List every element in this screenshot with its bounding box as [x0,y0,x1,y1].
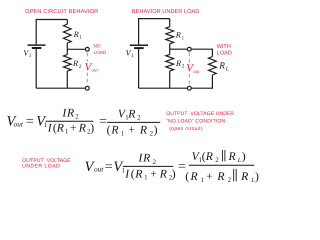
wire: branch below R2 [66,71,68,88]
formula fraction 4 numerator V1(R2 || RL) [192,150,246,164]
label R2 (right) [175,59,185,70]
svg-text:+: + [70,122,77,135]
svg-text:R: R [66,106,74,119]
svg-text:R: R [190,170,198,183]
terminal: bottom node (open circle, right) [187,86,191,90]
svg-text:2: 2 [228,177,232,184]
svg-text:1: 1 [65,129,68,136]
svg-text:LOAD: LOAD [217,50,232,56]
annotation: NO LOAD [94,44,107,55]
resistor R1 (right) [166,27,174,44]
label Vout (left) [85,61,99,73]
annotation: WITH LOAD [217,44,232,57]
svg-text:1: 1 [182,35,185,41]
svg-text:R: R [175,59,181,68]
title: BEHAVIOR UNDER LOAD [132,9,199,15]
svg-text:(open circuit): (open circuit) [169,126,203,132]
svg-text:): ) [172,168,176,181]
svg-text:+: + [128,124,135,137]
wire: node to terminal [67,48,85,50]
formula fraction 2 denominator (R1+R2) [107,124,158,138]
svg-text:R: R [134,168,142,181]
svg-text:UNDER LOAD: UNDER LOAD [22,163,60,169]
svg-text:2: 2 [182,64,185,70]
annotation: OUTPUT VOLTAGE UNDER 'NO LOAD' CONDITION (open circuit) [166,111,234,132]
svg-text:WITH: WITH [217,44,231,50]
wire: branch between R1 and R2 [66,43,68,55]
formula fraction 1 bar [46,120,94,122]
svg-text:L: L [225,67,229,73]
wire: load branch lower stub [211,75,213,89]
svg-text:R: R [228,150,236,163]
svg-text:out: out [92,69,99,74]
formula term: V1 [36,114,47,130]
svg-text:): ) [90,122,94,135]
wire: branch between R1 and R2 (right) [169,44,171,55]
svg-text:R: R [73,30,79,39]
formula term: Vout (2) [85,159,105,175]
wire: left top [36,19,67,21]
wire: left side lower [35,49,37,88]
svg-text:R: R [139,124,147,137]
svg-text:+: + [150,168,157,181]
wire: right top [139,18,170,20]
svg-text:R: R [159,168,167,181]
wire: left side upper [35,19,37,44]
wire: right bottom left of terminal [139,87,188,89]
svg-text:R: R [142,152,150,165]
battery V1 (left) [28,45,46,48]
label R1 (left) [73,30,83,41]
svg-text:1: 1 [44,122,47,129]
svg-text:2: 2 [137,114,141,121]
parallel symbol (numerator 4) [222,150,225,161]
formula fraction 1 denominator I(R1+R2) [47,122,95,136]
svg-text:2: 2 [75,114,79,121]
svg-text:out: out [94,165,104,174]
formula fraction 4 denominator (R1+R2 || RL) [185,170,259,184]
svg-text:R: R [78,122,86,135]
formula term: Vout [7,114,24,130]
svg-text:NO: NO [94,44,101,49]
wire: right side lower [138,49,140,88]
svg-text:BEHAVIOR UNDER LOAD: BEHAVIOR UNDER LOAD [132,9,199,15]
wire: branch below R2 (right) [169,71,171,88]
label Vout (right) [186,63,200,75]
wire: branch top stub (right) [169,19,171,27]
formula term: third equals [178,158,186,174]
svg-text:2: 2 [79,64,82,70]
svg-text:): ) [154,124,158,137]
formula fraction 2 numerator V1R2 [118,107,141,121]
formula fraction 2 bar [107,121,160,123]
svg-text:+: + [206,170,213,183]
svg-text:1: 1 [144,174,147,181]
svg-text:out: out [193,70,200,75]
wire: node terminal to load branch [191,48,212,50]
svg-text:2: 2 [153,159,157,166]
terminal: left bottom (open circle) [85,86,89,90]
Vout dashed line (right, upper segment) [188,53,190,63]
label R1 (right) [175,31,185,42]
svg-text:LOAD: LOAD [94,50,107,55]
parallel symbol (denominator 4) [234,169,237,182]
formula fraction 3 numerator IR2 [138,152,157,166]
svg-text:R: R [175,31,181,40]
formula fraction 1 numerator IR2 [61,106,79,120]
svg-text:=: = [26,114,34,130]
formula term: second equals [99,114,107,130]
wire: load branch upper stub [211,49,213,57]
terminal: output node (open circle, right) [187,47,191,51]
resistor R2 (left) [63,55,71,71]
Vout dashed line (right, lower segment) [188,74,190,86]
title: OPEN CIRCUIT BEHAVIOR [25,9,98,15]
svg-text:R: R [127,107,135,120]
wire: bottom terminal to load branch [191,87,212,89]
Vout dashed line (left, upper segment) [86,53,88,62]
wire: right side upper [138,18,140,44]
formula fraction 4 bar [189,164,254,166]
svg-text:R: R [240,170,248,183]
svg-text:R: R [110,124,118,137]
svg-text:R: R [218,62,225,72]
svg-text:(: ( [185,170,189,183]
svg-text:“NO LOAD” CONDITION: “NO LOAD” CONDITION [166,119,225,125]
svg-text:1: 1 [201,177,204,184]
resistor R1 (left) [63,24,71,43]
svg-text:=: = [105,159,113,175]
svg-text:R: R [72,59,78,68]
svg-text:1: 1 [121,130,124,137]
svg-text:I: I [47,122,53,135]
Vout dashed line (left, lower segment) [86,73,88,86]
svg-text:): ) [242,150,246,163]
formula term: V1 (2) [113,159,125,175]
svg-text:1: 1 [29,53,32,59]
label V1 (left battery) [23,49,32,60]
svg-text:out: out [14,120,24,129]
svg-text:(: ( [107,124,111,137]
label RL [218,62,229,73]
formula term: equals [26,114,34,130]
resistor R2 (right) [166,54,174,71]
label R2 (left) [72,59,82,70]
wire: left bottom [36,87,85,89]
annotation: OUTPUT VOLTAGE UNDER LOAD [22,158,71,169]
wire: branch top stub [66,20,68,25]
svg-text:R: R [56,122,64,135]
svg-text:I: I [124,168,130,181]
svg-text:1: 1 [79,35,82,41]
resistor RL [209,57,217,75]
formula term: equals (2) [105,159,113,175]
formula fraction 3 denominator I(R1+R2) [124,168,175,182]
svg-text:2: 2 [215,157,219,164]
svg-text:OPEN CIRCUIT BEHAVIOR: OPEN CIRCUIT BEHAVIOR [25,9,98,15]
label V1 (right battery) [126,49,135,60]
svg-text:R: R [216,170,224,183]
battery V1 (right) [130,45,148,48]
svg-text:OUTPUT VOLTAGE UNDER: OUTPUT VOLTAGE UNDER [166,111,234,117]
terminal: output node (open circle, left) [85,47,89,51]
svg-text:R: R [205,150,213,163]
formula fraction 3 bar [123,165,174,167]
svg-text:1: 1 [131,53,134,59]
wire: node to terminal (right) [170,48,188,50]
svg-text:(: ( [131,168,135,181]
svg-text:): ) [255,170,259,183]
